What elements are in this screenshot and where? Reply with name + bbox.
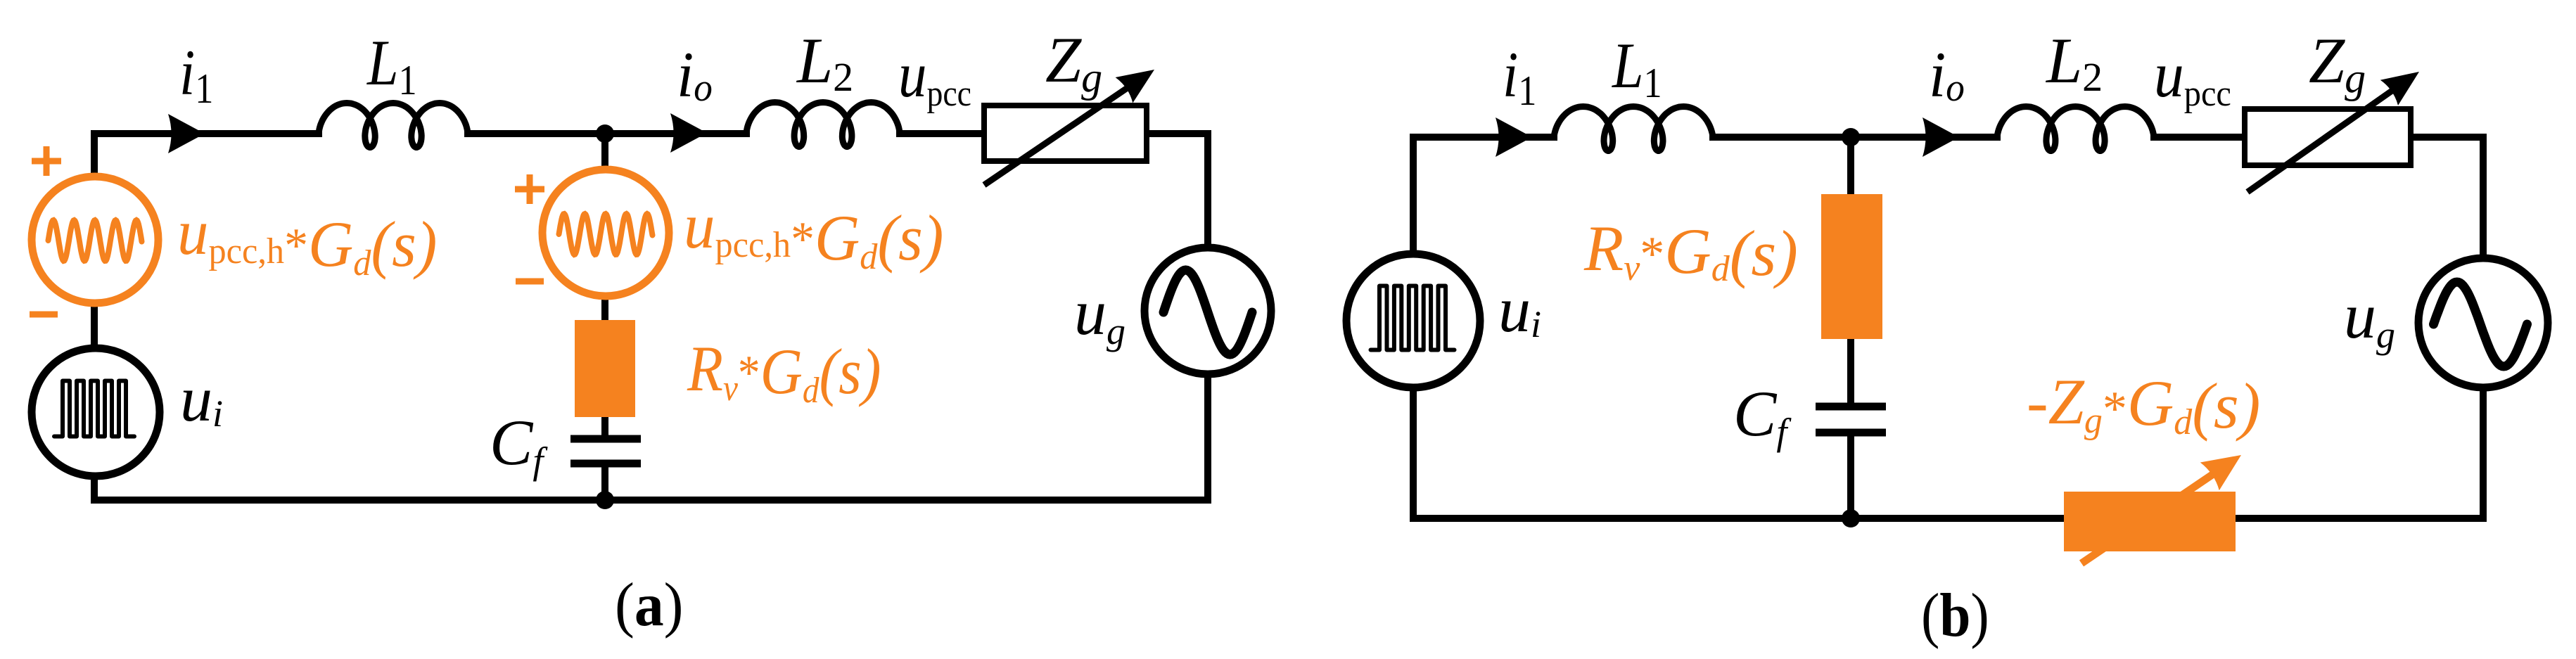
svg-text:Rv*Gd(s): Rv*Gd(s) (1583, 212, 1798, 289)
svg-text:(b): (b) (1921, 581, 1989, 650)
svg-text:-Zg*Gd(s): -Zg*Gd(s) (2027, 366, 2260, 442)
svg-text:(a): (a) (615, 570, 683, 639)
svg-text:Rv*Gd(s): Rv*Gd(s) (687, 333, 881, 410)
